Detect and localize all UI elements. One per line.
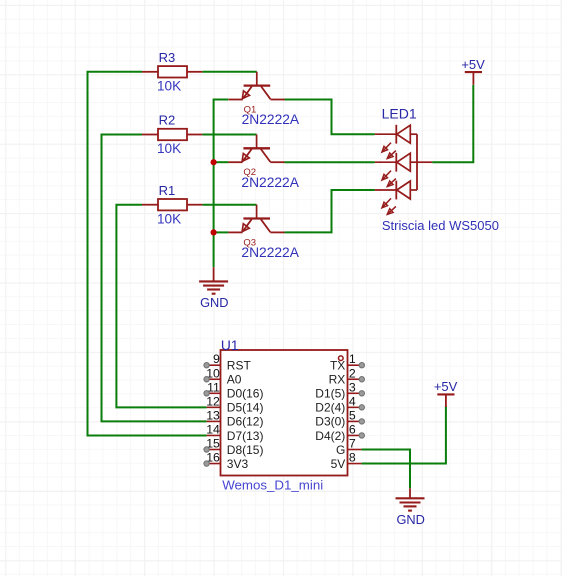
svg-text:RX: RX: [329, 373, 346, 387]
svg-text:GND: GND: [396, 512, 424, 527]
svg-text:10K: 10K: [157, 211, 181, 226]
svg-text:U1: U1: [221, 338, 239, 353]
svg-text:2: 2: [349, 366, 356, 380]
svg-text:G: G: [336, 443, 345, 457]
svg-text:LED1: LED1: [382, 106, 417, 122]
svg-text:D3(0): D3(0): [315, 415, 345, 429]
svg-text:3: 3: [349, 380, 356, 394]
svg-text:4: 4: [349, 394, 356, 408]
svg-text:RST: RST: [227, 359, 252, 373]
svg-text:9: 9: [213, 352, 220, 366]
svg-text:+5V: +5V: [434, 379, 458, 394]
svg-text:10K: 10K: [157, 141, 181, 156]
svg-text:D6(12): D6(12): [227, 415, 264, 429]
svg-text:D8(15): D8(15): [227, 443, 264, 457]
svg-text:7: 7: [349, 437, 356, 451]
svg-text:R1: R1: [159, 183, 176, 198]
svg-text:GND: GND: [200, 295, 228, 310]
svg-text:10K: 10K: [157, 78, 181, 93]
svg-text:Wemos_D1_mini: Wemos_D1_mini: [222, 477, 323, 492]
svg-text:D7(13): D7(13): [227, 429, 264, 443]
svg-text:+5V: +5V: [461, 57, 485, 72]
svg-text:D2(4): D2(4): [315, 401, 345, 415]
svg-text:TX: TX: [330, 359, 345, 373]
svg-text:13: 13: [206, 408, 220, 422]
svg-text:12: 12: [206, 394, 220, 408]
svg-text:D0(16): D0(16): [227, 387, 264, 401]
svg-text:14: 14: [206, 422, 220, 436]
svg-text:8: 8: [349, 451, 356, 465]
svg-text:2N2222A: 2N2222A: [241, 245, 299, 260]
svg-text:D4(2): D4(2): [315, 429, 345, 443]
svg-text:2N2222A: 2N2222A: [241, 175, 299, 190]
svg-text:5: 5: [349, 408, 356, 422]
svg-text:6: 6: [349, 422, 356, 436]
svg-text:2N2222A: 2N2222A: [242, 112, 300, 127]
svg-text:1: 1: [349, 352, 356, 366]
svg-text:D1(5): D1(5): [315, 387, 345, 401]
svg-text:3V3: 3V3: [227, 457, 249, 471]
svg-text:R3: R3: [159, 50, 176, 65]
svg-text:A0: A0: [227, 373, 242, 387]
svg-text:5V: 5V: [331, 457, 346, 471]
svg-text:D5(14): D5(14): [227, 401, 264, 415]
svg-text:R2: R2: [159, 113, 176, 128]
svg-text:Striscia led WS5050: Striscia led WS5050: [382, 218, 499, 233]
